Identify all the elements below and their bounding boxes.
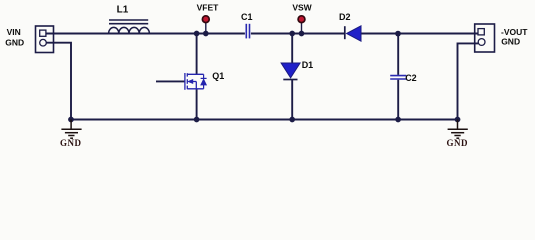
diode D2 xyxy=(345,26,361,41)
wire C2 top xyxy=(397,34,399,75)
svg-text:L1: L1 xyxy=(117,5,129,16)
svg-text:GND: GND xyxy=(447,138,469,148)
wire xyxy=(361,33,478,35)
svg-text:C2: C2 xyxy=(405,73,417,83)
svg-text:VFET: VFET xyxy=(197,2,220,12)
svg-text:GND: GND xyxy=(5,37,24,47)
node C2 top junction dot xyxy=(395,31,401,37)
svg-text:-VOUT: -VOUT xyxy=(501,27,528,37)
svg-text:GND: GND xyxy=(501,37,520,47)
svg-text:D1: D1 xyxy=(302,60,314,70)
svg-text:VSW: VSW xyxy=(292,2,312,12)
wire D1 bottom xyxy=(291,80,293,120)
node VFET junction dot right xyxy=(203,31,209,37)
capacitor C1 xyxy=(246,24,249,39)
wire D1 top xyxy=(291,34,293,64)
transistor Q1 NMOS xyxy=(185,73,207,90)
node Q1 source junction dot xyxy=(194,117,200,123)
node VSW junction dot left xyxy=(289,31,295,37)
wire Q1 gate stub xyxy=(156,80,185,82)
svg-text:GND: GND xyxy=(60,138,82,148)
connector J1 VIN xyxy=(36,26,54,53)
wire xyxy=(458,43,479,119)
ground (right) xyxy=(448,120,468,139)
node C2 bottom junction dot xyxy=(395,117,401,123)
ground (left) xyxy=(61,120,81,139)
diode D1 xyxy=(281,63,300,80)
node VFET junction dot left xyxy=(194,31,200,37)
connector J2 -VOUT xyxy=(475,24,495,52)
node D1 bottom junction dot xyxy=(289,117,295,123)
inductor L1 xyxy=(109,20,150,34)
svg-text:Q1: Q1 xyxy=(212,71,224,81)
svg-text:VIN: VIN xyxy=(7,27,21,37)
node right ground junction dot xyxy=(455,117,461,123)
capacitor C2 xyxy=(390,76,406,79)
wire xyxy=(46,33,245,35)
wire xyxy=(71,119,458,121)
wire xyxy=(47,43,72,120)
svg-text:D2: D2 xyxy=(339,12,351,22)
node left ground junction dot xyxy=(68,117,74,123)
svg-text:C1: C1 xyxy=(241,12,253,22)
wire C2 bottom xyxy=(397,80,399,120)
test point VSW xyxy=(298,16,305,34)
wire Q1 source xyxy=(196,89,198,120)
test point VFET xyxy=(202,16,209,34)
wire Q1 drain xyxy=(196,34,198,75)
node VSW junction dot right xyxy=(299,31,305,37)
wire xyxy=(251,33,344,35)
